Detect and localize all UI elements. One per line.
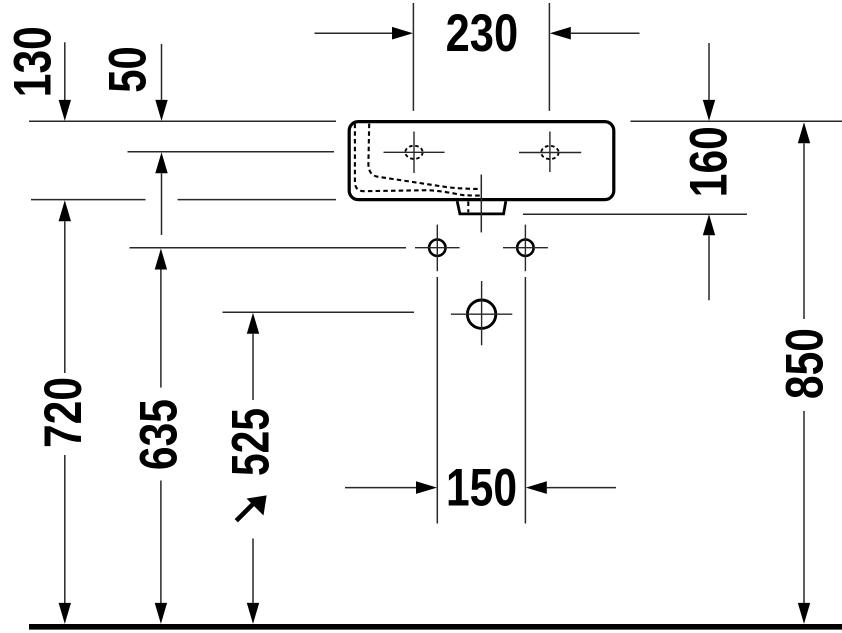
dimension 525 arrow up bbox=[247, 313, 259, 334]
dimension 50 arrow down bbox=[155, 100, 167, 121]
dimension 150 right arrowhead bbox=[526, 481, 547, 494]
wire: basin-bottom level line left part1 bbox=[31, 199, 146, 201]
dimension 230 left arrow tail bbox=[315, 32, 393, 34]
dimension 160 line upper bbox=[708, 43, 710, 100]
dimension 720 arrow down bbox=[59, 603, 71, 624]
svg-text:230: 230 bbox=[446, 4, 519, 63]
dimension 850 line lower bbox=[803, 411, 805, 604]
dimension 50 line upper bbox=[161, 44, 163, 101]
faucet hole right crosshair vertical bbox=[549, 132, 551, 173]
bolt hole right circle bbox=[517, 240, 533, 256]
bolt hole right crosshair horizontal bbox=[503, 247, 548, 249]
dimension 150 extension line left bbox=[436, 277, 438, 524]
dimension 230 right arrowhead bbox=[550, 27, 571, 40]
dimension 130 line bbox=[64, 42, 66, 100]
dimension 150 extension line right bbox=[524, 277, 526, 524]
dimension 50 lower tail bbox=[161, 173, 163, 235]
dimension 160 arrow down bbox=[703, 100, 715, 121]
svg-text:635: 635 bbox=[130, 399, 189, 470]
drain circle crosshair horizontal bbox=[451, 313, 512, 315]
bolt hole left circle bbox=[429, 240, 445, 256]
dimension 720 line upper bbox=[64, 221, 66, 373]
basin interior dashed drain wall bbox=[467, 202, 469, 213]
bolt hole left crosshair horizontal bbox=[415, 247, 460, 249]
dimension 720 line lower bbox=[64, 455, 66, 604]
basin interior dashed profile upper bbox=[368, 124, 481, 189]
wire: drain-level line 525 top bbox=[223, 311, 415, 313]
svg-text:525: 525 bbox=[222, 408, 281, 476]
faucet hole right crosshair horizontal bbox=[519, 152, 581, 154]
dimension 525 arrow down bbox=[247, 603, 259, 624]
wire: basin-bottom level line left part2 bbox=[178, 199, 337, 201]
dimension 635 arrow down bbox=[155, 603, 167, 624]
dimension 635 line upper bbox=[160, 270, 162, 388]
wire: wall rim line left segment bbox=[29, 120, 336, 122]
faucet hole left (dashed ellipse) bbox=[405, 146, 422, 159]
basin interior dashed profile lower bbox=[355, 124, 481, 196]
dimension 50 arrow up bbox=[155, 152, 167, 173]
svg-text:160: 160 bbox=[679, 126, 738, 197]
dimension 230 left arrowhead bbox=[392, 27, 413, 40]
dimension 150 left arrow tail bbox=[345, 487, 416, 489]
basin outline bbox=[349, 122, 614, 200]
svg-text:130: 130 bbox=[4, 26, 63, 97]
svg-text:150: 150 bbox=[446, 459, 517, 518]
dimension 635 line lower bbox=[160, 481, 162, 604]
wire: drain-bottom level line right bbox=[523, 213, 747, 215]
dimension 850 line upper bbox=[803, 143, 805, 319]
wire: wall rim line right segment bbox=[631, 120, 842, 122]
dimension 230 extension line left bbox=[412, 3, 414, 111]
dimension 720 arrow up bbox=[59, 200, 71, 221]
wire: faucet-level line left bbox=[128, 151, 335, 153]
pointer arrow near 525 bbox=[236, 495, 266, 520]
wire: bolt-hole level line bbox=[130, 247, 407, 249]
svg-text:50: 50 bbox=[99, 46, 158, 93]
svg-text:850: 850 bbox=[776, 328, 835, 399]
dimension 160 arrow up bbox=[703, 214, 715, 235]
svg-text:720: 720 bbox=[34, 377, 93, 448]
drain tailpiece bbox=[457, 201, 506, 214]
dimension 230 right arrow tail bbox=[571, 32, 640, 34]
dimension 635 arrow up bbox=[155, 249, 167, 270]
dimension 525 line upper bbox=[252, 334, 254, 400]
dimension 525 line lower bbox=[252, 539, 254, 604]
dimension 150 right arrow tail bbox=[547, 487, 616, 489]
dimension 150 left arrowhead bbox=[416, 481, 437, 494]
bolt hole left crosshair vertical bbox=[436, 225, 438, 272]
dimension 850 arrow down bbox=[798, 603, 810, 624]
drain circle crosshair vertical bbox=[481, 281, 483, 345]
dimension 160 lower tail bbox=[708, 236, 710, 301]
bolt hole right crosshair vertical bbox=[524, 225, 526, 272]
node: drain centerline bbox=[480, 175, 482, 233]
drain circle bbox=[467, 300, 495, 328]
dimension 230 extension line right bbox=[548, 3, 550, 111]
faucet hole right (dashed ellipse) bbox=[541, 146, 558, 159]
faucet hole left crosshair horizontal bbox=[384, 151, 445, 153]
dimension 130 arrow down bbox=[59, 100, 71, 121]
dimension 850 arrow up bbox=[798, 122, 810, 143]
floor line bbox=[29, 624, 842, 630]
faucet hole left crosshair vertical bbox=[413, 132, 415, 174]
